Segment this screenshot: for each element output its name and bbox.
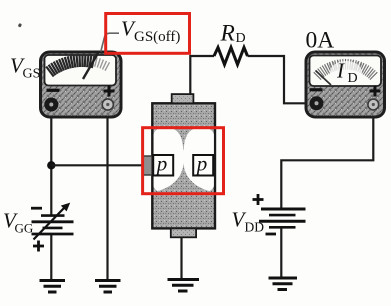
voltmeter plus sign bbox=[104, 86, 115, 97]
JFET source contact (bottom tab) bbox=[171, 228, 196, 237]
svg-text:I: I bbox=[336, 59, 345, 83]
wire from VGS meter plus terminal down to ground bbox=[106, 110, 108, 280]
ground under JFET source bbox=[168, 280, 200, 292]
node junction dot on gate wire bbox=[47, 161, 55, 169]
ammeter plus sign bbox=[370, 86, 381, 97]
ammeter minus sign bbox=[310, 88, 323, 91]
voltmeter needle bbox=[83, 53, 98, 79]
ammeter needle at zero bbox=[316, 71, 332, 86]
svg-text:GS: GS bbox=[23, 67, 41, 82]
resistor RD zigzag bbox=[214, 48, 248, 65]
wire from VGG battery bottom to ground bbox=[50, 234, 52, 280]
svg-text:GG: GG bbox=[15, 221, 34, 236]
JFET drain contact (top tab) bbox=[172, 94, 194, 103]
halo behind ID label bbox=[330, 61, 362, 83]
voltmeter right terminal bbox=[102, 99, 113, 110]
ground under VGG bbox=[40, 281, 66, 293]
VDD minus sign bbox=[266, 233, 277, 236]
ammeter ID body bbox=[306, 52, 385, 117]
wire from junction to JFET gate contact bbox=[51, 164, 143, 166]
svg-text:D: D bbox=[348, 71, 358, 86]
red highlight box around channel region bbox=[143, 128, 224, 194]
ammeter scale ticks bbox=[314, 59, 378, 80]
voltmeter scale ticks bbox=[46, 55, 109, 77]
p region right bbox=[193, 155, 213, 176]
svg-text:GS(off): GS(off) bbox=[134, 29, 180, 45]
svg-text:D: D bbox=[236, 31, 246, 46]
voltmeter minus sign bbox=[47, 89, 60, 92]
VGG plus sign bbox=[33, 241, 44, 252]
ground under VDD bbox=[269, 278, 298, 290]
wire from JFET drain (top) up and right to resistor RD bbox=[190, 56, 214, 95]
wire from ammeter plus terminal down and left to VDD battery bbox=[281, 110, 373, 210]
svg-text:R: R bbox=[220, 21, 235, 47]
JFET depletion region (white) bbox=[154, 128, 214, 191]
stray scan mark bbox=[18, 23, 22, 28]
battery VGG (variable source) plates bbox=[32, 216, 74, 234]
p region left bbox=[153, 155, 173, 176]
battery VDD plates bbox=[259, 209, 306, 227]
VGG minus sign bbox=[31, 207, 42, 210]
ammeter ID display bbox=[310, 56, 382, 87]
svg-text:p: p bbox=[195, 152, 208, 176]
voltmeter VGS display bbox=[45, 55, 117, 86]
wire from JFET source (bottom) down to ground bbox=[180, 237, 182, 279]
wire from resistor RD to ammeter minus terminal bbox=[248, 56, 313, 103]
wire from VGS meter minus terminal down to VGG battery bbox=[50, 110, 52, 215]
voltmeter left terminal bbox=[44, 98, 58, 112]
VGG variable arrow bbox=[34, 208, 65, 240]
callout leader line to needle bbox=[101, 33, 119, 51]
red callout box VGS(off) bbox=[106, 14, 190, 54]
JFET body (n channel block) bbox=[152, 103, 215, 228]
ammeter right terminal bbox=[368, 99, 379, 110]
svg-text:p: p bbox=[155, 152, 168, 176]
JFET gate contact tab bbox=[143, 156, 153, 175]
ammeter left terminal bbox=[310, 96, 324, 110]
voltmeter VGS body bbox=[41, 52, 122, 117]
svg-text:DD: DD bbox=[245, 220, 265, 235]
ground under VGS meter plus wire bbox=[95, 281, 121, 293]
VDD plus sign bbox=[253, 194, 264, 205]
wire from VDD battery bottom to ground bbox=[280, 228, 282, 278]
svg-text:0A: 0A bbox=[306, 28, 335, 54]
